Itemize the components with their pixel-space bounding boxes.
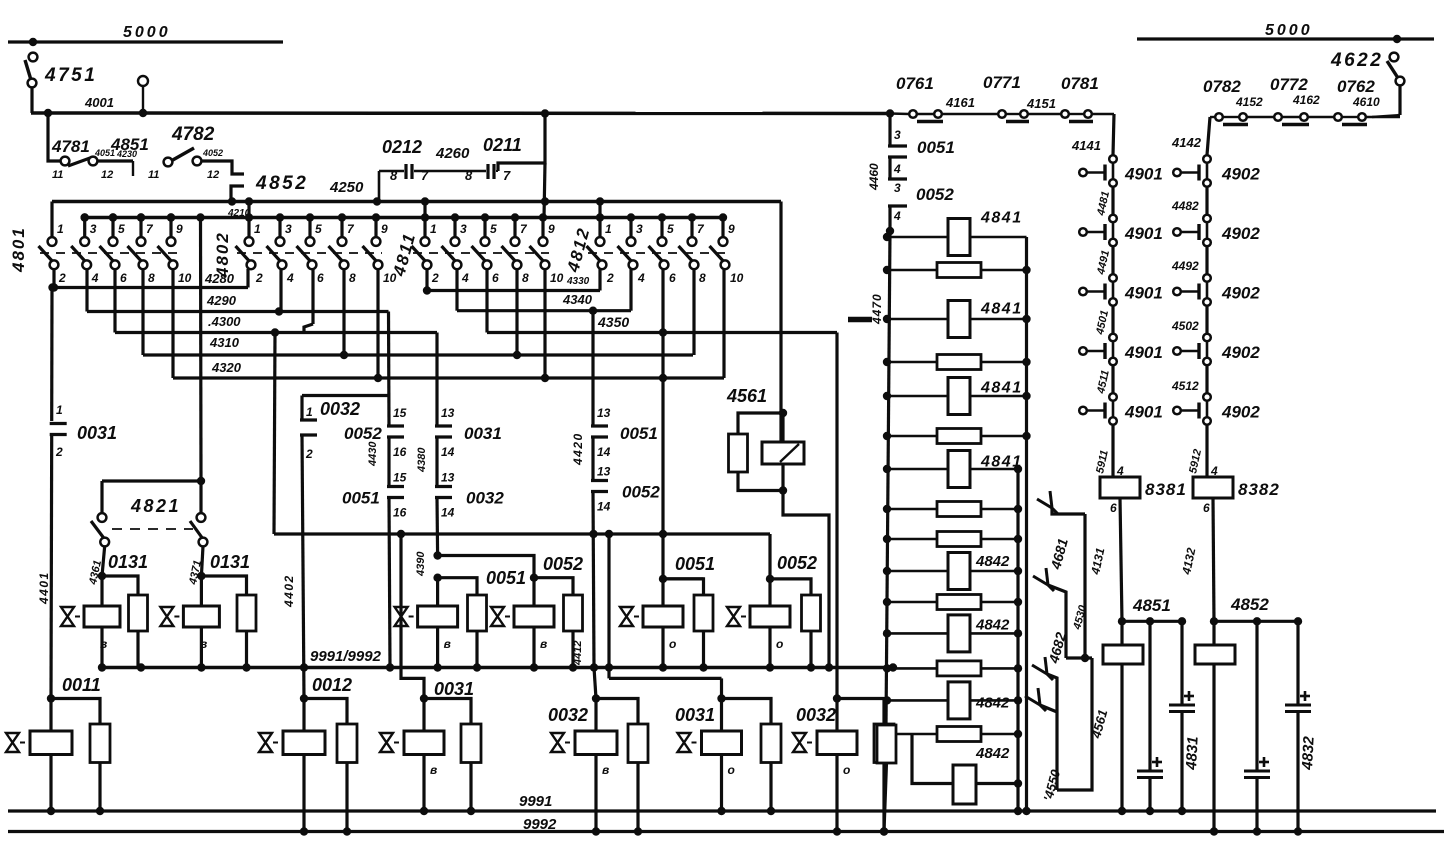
svg-text:13: 13 <box>441 471 455 485</box>
svg-text:0032: 0032 <box>548 705 588 725</box>
svg-text:2: 2 <box>58 271 66 285</box>
svg-text:14: 14 <box>597 445 611 459</box>
svg-text:0781: 0781 <box>1061 74 1099 93</box>
ladder rung resistor 10 <box>887 570 1018 573</box>
wire 4470 dash <box>848 317 872 323</box>
relay coil 0051 <box>661 579 664 606</box>
svg-text:4902: 4902 <box>1221 224 1260 243</box>
svg-text:0031: 0031 <box>77 423 117 443</box>
bus 4280 <box>52 269 55 288</box>
svg-text:3: 3 <box>90 222 97 236</box>
wire riser from 4001 <box>498 114 545 172</box>
svg-text:5: 5 <box>118 222 125 236</box>
bank 4801 switches <box>40 252 177 254</box>
svg-text:13: 13 <box>597 465 611 479</box>
svg-text:4052: 4052 <box>202 148 223 158</box>
capacitor 4832 <box>1296 621 1299 705</box>
svg-text:4: 4 <box>461 271 469 285</box>
svg-text:4610: 4610 <box>1352 95 1380 109</box>
svg-text:0032: 0032 <box>466 489 504 508</box>
wire 4371 <box>201 546 203 576</box>
svg-text:в: в <box>200 637 207 651</box>
wire 4131 <box>1120 498 1122 621</box>
ladder rung resistor 14 <box>887 699 1018 702</box>
resistor of 0052 <box>534 578 573 595</box>
svg-text:6: 6 <box>120 271 127 285</box>
resistor of 0131 <box>102 576 138 595</box>
svg-text:о: о <box>843 763 850 777</box>
resistor of 0032 <box>596 699 638 725</box>
svg-text:0051: 0051 <box>486 568 526 588</box>
svg-text:в: в <box>540 637 547 651</box>
svg-text:13: 13 <box>597 406 611 420</box>
contact 4781 <box>48 113 61 161</box>
svg-text:0131: 0131 <box>108 552 148 572</box>
svg-text:1: 1 <box>56 403 63 417</box>
svg-text:0772: 0772 <box>1270 75 1308 94</box>
riser to bus 4270 <box>378 171 381 202</box>
svg-text:4001: 4001 <box>84 95 114 110</box>
contact column x=437 <box>435 424 452 427</box>
svg-text:4902: 4902 <box>1221 284 1260 303</box>
contact 0051 pins 3-4 <box>888 114 891 147</box>
svg-text:4460: 4460 <box>867 163 881 191</box>
svg-text:4412: 4412 <box>572 641 584 666</box>
ladder rung resistor 15 <box>887 733 1018 736</box>
ladder inner right rail <box>1016 469 1019 811</box>
wire 4401 <box>49 435 53 699</box>
svg-text:4: 4 <box>637 271 645 285</box>
svg-text:4852: 4852 <box>255 173 308 194</box>
bus 4330 <box>425 269 428 291</box>
plug 4682 upper <box>1033 576 1048 585</box>
svg-text:4141: 4141 <box>1071 138 1101 153</box>
svg-text:1: 1 <box>605 222 612 236</box>
capacitor small 2 <box>1255 621 1258 771</box>
svg-text:4782: 4782 <box>171 124 215 145</box>
svg-text:4831: 4831 <box>1183 736 1202 771</box>
svg-text:0032: 0032 <box>320 399 360 419</box>
svg-text:4280: 4280 <box>204 271 235 286</box>
bank 4812 switches <box>588 252 729 254</box>
plug 4681 <box>1037 499 1052 508</box>
svg-text:9991/9992: 9991/9992 <box>310 648 382 665</box>
wire col 663 to pair 2 <box>661 333 664 579</box>
svg-text:4380: 4380 <box>416 447 428 473</box>
switch 4751 <box>29 53 38 62</box>
svg-text:4841: 4841 <box>980 454 1023 471</box>
switch pair 4821 <box>102 479 201 482</box>
svg-text:0782: 0782 <box>1203 77 1241 96</box>
svg-text:0052: 0052 <box>916 185 954 204</box>
contact 4902 row 2 <box>1203 215 1211 223</box>
wire 4320 right end <box>722 269 725 378</box>
svg-text:6: 6 <box>669 271 676 285</box>
svg-text:4402: 4402 <box>282 574 296 608</box>
wire L to 0031b <box>607 668 610 679</box>
svg-text:8: 8 <box>699 271 706 285</box>
svg-text:0051: 0051 <box>917 138 955 157</box>
svg-text:3: 3 <box>285 222 292 236</box>
wire col 4380 branches <box>433 551 441 559</box>
bus 4350 <box>485 269 488 333</box>
contact 4902 row 5 <box>1203 393 1211 401</box>
wire 4821 feed from rail <box>196 213 204 221</box>
device 8381 <box>1111 425 1114 478</box>
wire between rows <box>1205 187 1208 219</box>
svg-text:4470: 4470 <box>870 293 884 325</box>
ladder rung resistor 13 <box>887 667 1018 670</box>
svg-text:14: 14 <box>597 500 611 514</box>
bus 9991/9992 <box>102 666 893 670</box>
svg-text:2: 2 <box>606 271 614 285</box>
wire box right edge from 4270 <box>779 202 782 443</box>
contact 4901 row 4 <box>1109 334 1117 342</box>
relay coil 0031 <box>717 694 725 702</box>
svg-text:0031: 0031 <box>464 424 502 443</box>
svg-text:в: в <box>100 637 107 651</box>
svg-text:4330: 4330 <box>566 276 590 287</box>
svg-text:11: 11 <box>52 169 63 181</box>
svg-text:2: 2 <box>431 271 439 285</box>
svg-text:2: 2 <box>55 445 63 459</box>
svg-text:4841: 4841 <box>980 210 1023 227</box>
contact 4901 row 5 <box>1109 393 1117 401</box>
svg-text:0211: 0211 <box>483 135 522 155</box>
contact 0052 pins 3-4 <box>888 177 907 180</box>
svg-text:0051: 0051 <box>675 554 715 574</box>
contact 4902 row 1 <box>1203 155 1211 163</box>
terminal circle <box>138 76 148 86</box>
relay coil 0052 <box>768 579 771 606</box>
svg-text:8382: 8382 <box>1238 480 1280 499</box>
svg-text:3: 3 <box>636 222 643 236</box>
choke 4852a <box>1212 621 1215 645</box>
choke 4851a <box>1120 621 1123 645</box>
resistor of 0052 <box>770 579 811 595</box>
svg-text:4320: 4320 <box>211 360 242 375</box>
svg-text:о: о <box>776 637 783 651</box>
svg-text:10: 10 <box>730 271 744 285</box>
svg-text:7: 7 <box>421 168 429 183</box>
svg-text:0031: 0031 <box>434 679 474 699</box>
svg-text:0012: 0012 <box>312 675 352 695</box>
wire col 4420 from 4340 <box>591 311 594 426</box>
svg-text:4260: 4260 <box>435 145 470 162</box>
contact 0032 pins 1-2 <box>300 396 303 421</box>
resistor of 0032 <box>837 699 884 725</box>
bus 4310 <box>141 269 144 355</box>
svg-text:6: 6 <box>492 271 499 285</box>
svg-text:4841: 4841 <box>980 380 1023 397</box>
svg-text:8: 8 <box>390 168 398 183</box>
svg-text:4842: 4842 <box>975 745 1010 762</box>
ladder rung resistor 4 <box>887 361 1027 364</box>
svg-text:3: 3 <box>460 222 467 236</box>
svg-text:4851: 4851 <box>1132 596 1171 615</box>
capacitor 0212 <box>414 170 462 172</box>
ladder rung resistor 2 <box>887 269 1027 272</box>
svg-text:4512: 4512 <box>1171 379 1199 393</box>
svg-text:4: 4 <box>893 162 901 176</box>
svg-text:15: 15 <box>393 406 407 420</box>
svg-text:9: 9 <box>176 222 183 236</box>
svg-text:7: 7 <box>503 168 511 183</box>
contact 4902 row 4 <box>1203 334 1211 342</box>
svg-text:4: 4 <box>893 209 901 223</box>
relay coil 0032 <box>833 694 841 702</box>
svg-text:в: в <box>602 763 609 777</box>
switch 4622 <box>1393 35 1401 43</box>
svg-text:0761: 0761 <box>896 74 934 93</box>
svg-text:4142: 4142 <box>1171 135 1202 150</box>
svg-text:4622: 4622 <box>1330 50 1383 71</box>
svg-text:8: 8 <box>522 271 529 285</box>
ladder rung resistor 3 <box>887 318 1027 321</box>
wire between rows <box>1205 306 1208 338</box>
wire riser to 4811 pin9 <box>544 163 545 218</box>
svg-text:8: 8 <box>465 168 473 183</box>
wire 5000 right bus <box>1137 37 1434 40</box>
svg-text:4852: 4852 <box>1230 595 1269 614</box>
wire 5000 left bus <box>8 40 283 43</box>
relay coil 0012 <box>300 694 308 702</box>
svg-text:9: 9 <box>728 222 735 236</box>
wire col 4430 from 4290 <box>387 312 391 427</box>
svg-text:13: 13 <box>441 406 455 420</box>
capacitor 4831 <box>1180 621 1183 705</box>
svg-text:4340: 4340 <box>562 292 593 307</box>
svg-text:4420: 4420 <box>571 432 585 466</box>
resistor of 0131 <box>201 576 246 595</box>
svg-text:4401: 4401 <box>37 571 51 605</box>
resistor of 0011 <box>51 699 100 725</box>
rail 9992 <box>8 830 1444 833</box>
svg-text:0011: 0011 <box>62 675 101 695</box>
wire 4142 drop <box>1207 117 1210 155</box>
rail 9991 <box>8 809 1436 812</box>
wire drop to bottom relays <box>607 534 610 668</box>
wire 4350 drop to 0032 coil <box>835 333 838 699</box>
ladder rung resistor 1 <box>887 236 1027 239</box>
relay coil 0051 <box>436 578 439 606</box>
ladder rung resistor 7 <box>887 468 1018 471</box>
svg-text:4901: 4901 <box>1124 224 1163 243</box>
svg-text:14: 14 <box>441 445 455 459</box>
svg-text:4152: 4152 <box>1235 95 1263 109</box>
svg-text:о: о <box>669 637 676 651</box>
svg-text:0762: 0762 <box>1337 77 1375 96</box>
contact chain 0761 0771 0781 <box>890 112 909 115</box>
svg-text:11: 11 <box>148 169 159 181</box>
device 8382 <box>1205 425 1208 478</box>
svg-text:8381: 8381 <box>1145 480 1187 499</box>
svg-text:4482: 4482 <box>1171 199 1199 213</box>
bus 4320 <box>171 269 174 378</box>
ladder rung resistor 9 <box>887 538 1018 541</box>
contact 0031 pins 1-2 <box>50 288 53 422</box>
contact 4901 row 1 <box>1109 155 1117 163</box>
svg-text:1: 1 <box>57 222 64 236</box>
wire between rows <box>1111 366 1114 398</box>
svg-text:16: 16 <box>393 506 407 520</box>
svg-text:2: 2 <box>255 271 263 285</box>
svg-text:0131: 0131 <box>210 552 250 572</box>
svg-text:4901: 4901 <box>1124 343 1163 362</box>
svg-text:3: 3 <box>894 181 901 195</box>
connector 4852 <box>201 161 244 174</box>
svg-text:14: 14 <box>441 506 455 520</box>
resistor of 0012 <box>304 699 347 725</box>
svg-text:0031: 0031 <box>675 705 715 725</box>
svg-text:4430: 4430 <box>367 441 379 467</box>
contact column x=593 <box>591 424 608 427</box>
svg-text:в: в <box>444 637 451 651</box>
svg-text:4: 4 <box>286 271 294 285</box>
svg-text:4290: 4290 <box>206 293 237 308</box>
relay coil 0011 <box>47 694 55 702</box>
svg-text:4901: 4901 <box>1124 165 1163 184</box>
svg-text:9992: 9992 <box>523 816 557 833</box>
wire w534 horizontal <box>274 532 770 535</box>
ladder rung resistor 12 <box>887 632 1018 635</box>
svg-text:9: 9 <box>548 222 555 236</box>
svg-text:10: 10 <box>550 271 564 285</box>
bank rail <box>85 216 723 220</box>
bank 4802 switches <box>237 252 382 254</box>
svg-text:8: 8 <box>349 271 356 285</box>
svg-text:4161: 4161 <box>945 95 975 110</box>
wire 4561 to bus <box>783 491 829 668</box>
contact chain 0782 0772 0762 <box>1398 85 1401 115</box>
svg-text:4841: 4841 <box>980 301 1023 318</box>
contact 4901 row 2 <box>1109 215 1117 223</box>
wire 4132 <box>1213 498 1214 621</box>
wire A from 4300 <box>274 333 275 535</box>
svg-text:4151: 4151 <box>1026 96 1056 111</box>
svg-text:12: 12 <box>207 169 219 181</box>
svg-text:4561: 4561 <box>726 386 767 406</box>
wire between rows <box>1111 247 1114 279</box>
svg-text:4230: 4230 <box>116 149 137 159</box>
svg-text:4842: 4842 <box>975 553 1010 570</box>
bus 4290 <box>85 269 88 312</box>
contact column x=389 <box>387 424 404 427</box>
wire between rows <box>1205 247 1208 279</box>
svg-text:0771: 0771 <box>983 73 1021 92</box>
wire feed 0052 right <box>768 534 771 579</box>
svg-text:4390: 4390 <box>415 551 427 577</box>
svg-text:15: 15 <box>393 471 407 485</box>
svg-text:4: 4 <box>91 271 99 285</box>
svg-text:0052: 0052 <box>777 553 817 573</box>
svg-text:16: 16 <box>393 445 407 459</box>
svg-text:10: 10 <box>383 271 397 285</box>
wire 4361 <box>102 546 105 576</box>
wire 4290 to 4802 sw2 <box>279 269 282 312</box>
ladder rung resistor 5 <box>887 395 1027 398</box>
capacitor small <box>1148 621 1151 771</box>
svg-text:4350: 4350 <box>597 314 629 330</box>
svg-text:2: 2 <box>305 447 313 461</box>
svg-text:4162: 4162 <box>1292 93 1320 107</box>
svg-text:0051: 0051 <box>620 424 658 443</box>
svg-text:4842: 4842 <box>975 617 1010 634</box>
svg-text:4842: 4842 <box>975 695 1010 712</box>
bus 4300 <box>113 269 116 333</box>
ladder rung resistor 11 <box>887 601 1018 604</box>
svg-text:4902: 4902 <box>1221 343 1260 362</box>
svg-text:.4300: .4300 <box>208 314 241 329</box>
wire contact 0032 pins1-2 feed <box>302 394 389 397</box>
svg-text:1: 1 <box>430 222 437 236</box>
svg-text:5: 5 <box>315 222 322 236</box>
wire to 4782 <box>97 159 133 162</box>
svg-text:4832: 4832 <box>1299 735 1318 771</box>
svg-text:4801: 4801 <box>9 226 28 273</box>
svg-text:3: 3 <box>894 128 901 142</box>
svg-text:0212: 0212 <box>382 137 422 157</box>
svg-text:0052: 0052 <box>622 483 660 502</box>
wire 4141 drop <box>1113 114 1114 155</box>
ladder rung 16 <box>912 734 1018 784</box>
bank 4811 switches <box>413 252 549 254</box>
svg-text:0052: 0052 <box>344 424 382 443</box>
wire between rows <box>1111 187 1114 219</box>
wire between rows <box>1205 366 1208 398</box>
svg-text:0052: 0052 <box>543 554 583 574</box>
svg-text:1: 1 <box>254 222 261 236</box>
svg-text:9: 9 <box>381 222 388 236</box>
resistor of 0031 <box>722 699 772 725</box>
contact 4902 row 3 <box>1203 274 1211 282</box>
ladder outer right rail <box>1025 237 1028 811</box>
svg-text:5: 5 <box>667 222 674 236</box>
svg-text:5000: 5000 <box>123 24 171 41</box>
svg-text:12: 12 <box>101 169 113 181</box>
svg-text:4821: 4821 <box>130 496 181 516</box>
svg-text:8: 8 <box>148 271 155 285</box>
relay coil 0131 <box>100 576 103 606</box>
relay coil 0052 <box>532 578 535 606</box>
contact 4901 row 3 <box>1109 274 1117 282</box>
relay coil 0031 <box>420 694 428 702</box>
svg-text:6: 6 <box>317 271 324 285</box>
wire 4561 loop <box>1057 658 1092 790</box>
wire to relay 0031a <box>401 534 424 699</box>
ladder rung resistor 8 <box>887 508 1018 511</box>
resistor of 0051 <box>663 579 704 595</box>
svg-text:4310: 4310 <box>209 335 240 350</box>
svg-text:0032: 0032 <box>796 705 836 725</box>
svg-text:1: 1 <box>306 405 313 419</box>
bus 4340 <box>455 269 458 311</box>
node on 5000 <box>29 38 37 46</box>
plug 4550 <box>1025 696 1040 705</box>
relay 4561 <box>779 409 787 417</box>
svg-text:4902: 4902 <box>1221 403 1260 422</box>
ladder left rail resistor <box>877 725 896 763</box>
svg-text:4492: 4492 <box>1171 259 1199 273</box>
resistor ladder rails <box>886 227 894 235</box>
svg-text:4901: 4901 <box>1124 403 1163 422</box>
svg-text:4901: 4901 <box>1124 284 1163 303</box>
wire col 4380 from 4300 <box>435 333 438 427</box>
resistor of 0031 <box>424 699 471 725</box>
capacitor 0211 <box>496 170 498 172</box>
svg-text:9991: 9991 <box>519 793 552 810</box>
plug 4682 <box>1032 665 1047 674</box>
